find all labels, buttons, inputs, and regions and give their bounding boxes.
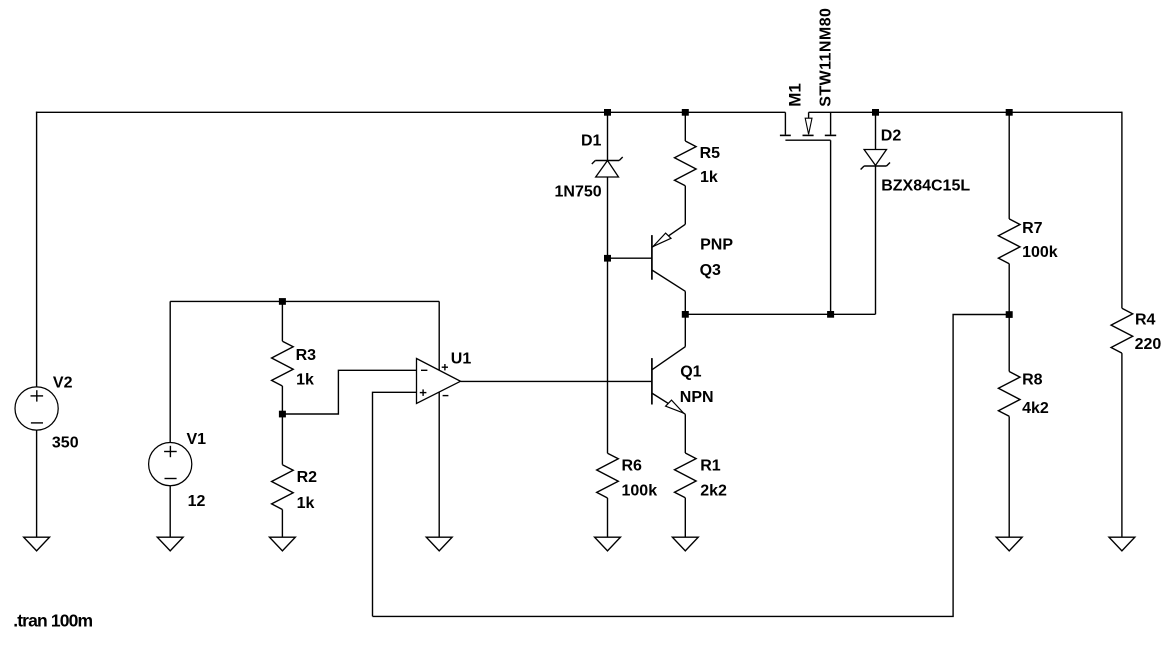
resistor R3 (272, 341, 294, 386)
wire opamp V- power pin to ground (438, 392, 440, 537)
svg-text:R7: R7 (1022, 220, 1043, 237)
wire top rail right segment (809, 111, 1122, 113)
svg-text:STW11NM80: STW11NM80 (817, 8, 834, 107)
wire V1 to ground (169, 486, 171, 538)
wire V1 row to opamp power (170, 300, 439, 302)
svg-text:D2: D2 (881, 128, 902, 145)
ground under opamp (426, 537, 452, 551)
wire R4 top lead (1121, 112, 1123, 309)
wire D1 top lead (607, 112, 609, 160)
wire R6 to ground (607, 498, 609, 537)
resistor R1 (675, 453, 697, 498)
resistor R2 (272, 465, 294, 510)
wire D1 bottom through to R6 (607, 177, 609, 453)
svg-text:4k2: 4k2 (1022, 400, 1049, 417)
svg-text:U1: U1 (451, 351, 472, 368)
wire left rail vertical to V2 (36, 112, 38, 388)
wire D2 top lead (875, 112, 877, 149)
svg-text:R4: R4 (1135, 312, 1156, 329)
svg-text:R3: R3 (296, 347, 317, 364)
wire opamp output to Q1 base (461, 380, 652, 382)
resistor R6 (597, 453, 619, 498)
zener diode D1 (592, 157, 623, 177)
node junction M1 gate on node row (827, 311, 834, 318)
node junction R3-R2 divider (279, 411, 286, 418)
wire R3 top lead (281, 301, 283, 341)
resistor R4 (1111, 308, 1133, 353)
svg-text:Q3: Q3 (700, 262, 721, 279)
wire R7 top lead (1008, 112, 1010, 219)
wire divider to opamp inverting input (282, 370, 416, 414)
node junction R3 top (279, 298, 286, 305)
svg-text:BZX84C15L: BZX84C15L (881, 177, 970, 194)
svg-text:M1: M1 (786, 83, 805, 107)
svg-text:R8: R8 (1022, 372, 1043, 389)
svg-text:V1: V1 (187, 431, 207, 448)
svg-text:1k: 1k (700, 169, 718, 186)
svg-text:220: 220 (1135, 336, 1162, 353)
svg-text:2k2: 2k2 (700, 482, 727, 499)
wire M1 gate lead down (830, 140, 832, 314)
ground under R1 (672, 537, 698, 551)
svg-text:1k: 1k (296, 372, 314, 389)
wire V2 to ground (36, 430, 38, 537)
ground under R2 (270, 537, 296, 551)
wire top rail left segment (36, 111, 786, 113)
wire R5 top lead (684, 112, 686, 141)
wire R8 to ground (1008, 416, 1010, 537)
wire node row to D2 (685, 313, 875, 315)
node junction R7 top (1006, 109, 1013, 116)
resistor R5 (675, 141, 697, 186)
wire V1 vertical (169, 301, 171, 442)
resistor R7 (998, 219, 1020, 264)
wire R7 to divider node (1008, 264, 1010, 315)
wire R3 to R2 (281, 386, 283, 414)
wire Q3 base lead (608, 257, 652, 259)
svg-text:NPN: NPN (680, 389, 714, 406)
op-amp U1 (417, 359, 461, 404)
wire R8 top lead (1008, 315, 1010, 372)
svg-text:1N750: 1N750 (555, 184, 602, 201)
svg-text:12: 12 (188, 493, 206, 510)
svg-text:100k: 100k (1022, 244, 1058, 261)
wire R4 to ground (1121, 353, 1123, 537)
transistor Q3 (652, 224, 685, 314)
svg-text:Q1: Q1 (680, 363, 701, 380)
wire R5 to Q3 emitter (684, 186, 686, 225)
ground under R6 (595, 537, 621, 551)
svg-text:D1: D1 (581, 133, 602, 150)
ground under V1 (157, 537, 183, 551)
node junction D1-R6-Q3 base (604, 255, 611, 262)
voltage source V2 (15, 387, 58, 430)
wire opamp V+ power pin (438, 301, 440, 370)
resistor R8 (998, 372, 1020, 417)
ground under V2 (24, 537, 50, 551)
svg-text:.tran 100m: .tran 100m (13, 610, 92, 630)
wire R2 to ground (281, 510, 283, 538)
node junction D2 top (872, 109, 879, 116)
svg-text:R2: R2 (297, 469, 318, 486)
node junction Q3 collector / Q1 collector (682, 311, 689, 318)
node junction R7-R8 divider (1006, 311, 1013, 318)
mosfet M1 (780, 112, 836, 140)
svg-text:1k: 1k (297, 495, 315, 512)
svg-text:V2: V2 (53, 374, 73, 391)
transistor Q1 (652, 314, 685, 453)
wire opamp noninverting input (373, 392, 417, 616)
ground under R8 (996, 537, 1022, 551)
ground under R4 (1109, 537, 1135, 551)
wire R2 top lead (281, 414, 283, 465)
wire R1 to ground (684, 498, 686, 537)
svg-text:PNP: PNP (700, 236, 733, 253)
svg-text:350: 350 (52, 435, 79, 452)
svg-text:R6: R6 (622, 458, 643, 475)
wire D2 bottom lead (875, 166, 877, 314)
wire feedback bottom run (373, 315, 1010, 617)
svg-text:R5: R5 (700, 145, 721, 162)
svg-text:R1: R1 (700, 458, 721, 475)
svg-text:100k: 100k (622, 482, 658, 499)
node junction D1 top (604, 109, 611, 116)
zener diode D2 (861, 150, 890, 170)
voltage source V1 (149, 443, 192, 486)
node junction R5 top (682, 109, 689, 116)
